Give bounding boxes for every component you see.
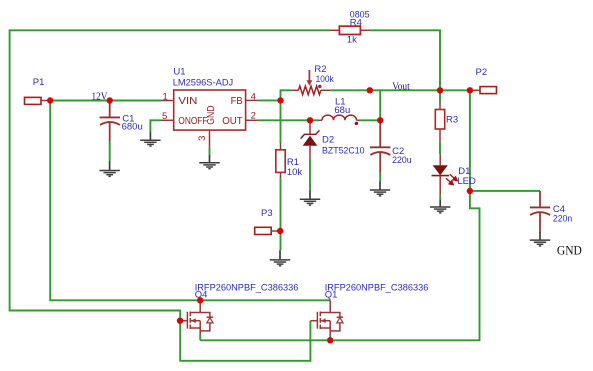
connector P1: [25, 77, 51, 104]
U1 pin 2 OUT: [222, 111, 257, 128]
svg-text:P1: P1: [33, 77, 45, 88]
svg-text:Vout: Vout: [392, 82, 410, 93]
svg-text:GND: GND: [557, 243, 582, 258]
svg-text:5: 5: [162, 111, 167, 122]
svg-text:100k: 100k: [316, 74, 334, 85]
junction R3/R4: [437, 87, 443, 93]
svg-text:1k: 1k: [347, 34, 357, 45]
junction P2: [467, 87, 473, 93]
svg-text:IRFP260NPBF_C386336: IRFP260NPBF_C386336: [195, 283, 299, 294]
ground under C1: [99, 161, 119, 176]
wire P2 column down to LED node: [469, 90, 471, 191]
wire P1 down to MOSFET drains: [50, 101, 330, 301]
junction LED/C4: [467, 188, 473, 194]
U1 pin 4 FB: [231, 92, 258, 108]
diode D1 LED: [432, 154, 477, 200]
svg-text:R4: R4: [350, 17, 362, 28]
junction Q1 source: [327, 337, 333, 343]
diode D2 zener BZT52C10: [301, 120, 365, 190]
ground under C2: [370, 182, 390, 196]
svg-text:BZT52C10: BZT52C10: [322, 145, 365, 156]
wire net gates: top bus to R4, left side, bottom, to Q4/Q1 gates: [10, 30, 330, 361]
wire tee to L1/C2 node: [379, 90, 381, 120]
junction Q4 gate: [177, 318, 183, 324]
svg-text:R3: R3: [446, 114, 458, 125]
U1 pin 1 VIN: [161, 92, 197, 108]
svg-text:3: 3: [197, 136, 208, 141]
ground under P3: [270, 250, 290, 266]
wire ONOFF to ground: [150, 120, 161, 132]
svg-text:4: 4: [251, 92, 256, 103]
ground for ONOFF: [140, 132, 160, 146]
svg-text:IRFP260NPBF_C386336: IRFP260NPBF_C386336: [325, 283, 429, 294]
svg-text:ONOFF: ONOFF: [178, 115, 207, 127]
resistor R4: [330, 9, 370, 45]
capacitor C4: [530, 191, 572, 232]
svg-text:2: 2: [251, 111, 256, 122]
svg-text:FB: FB: [231, 95, 243, 107]
junction C1/12V: [107, 97, 113, 103]
svg-text:P3: P3: [261, 208, 273, 219]
wire LED node down to MOSFET sources: [200, 191, 479, 340]
junction OUT/D2/L1: [307, 117, 313, 123]
svg-text:GND: GND: [205, 105, 217, 125]
svg-text:68u: 68u: [334, 105, 350, 116]
svg-text:OUT: OUT: [222, 115, 243, 127]
svg-text:VIN: VIN: [178, 95, 197, 107]
junction L1/C2: [377, 117, 383, 123]
junction R2 right: [367, 87, 373, 93]
wire Vout bus left + FB branch: [258, 90, 292, 143]
resistor R2 (trimmer): [292, 64, 334, 95]
svg-text:10k: 10k: [287, 167, 303, 178]
junction FB: [277, 97, 283, 103]
junction P1: [47, 97, 53, 103]
wire Vout bus right: [330, 89, 470, 91]
ground under U1 pin 3: [199, 155, 219, 169]
ground under D2: [300, 191, 320, 206]
transistor Q4 IRFP260NPBF_C386336: [180, 283, 298, 341]
resistor R1: [276, 143, 303, 250]
svg-text:LED: LED: [457, 176, 476, 187]
wire R4 right to Vout bus: [370, 30, 441, 90]
svg-text:U1: U1: [173, 67, 185, 78]
connector P3: [255, 208, 280, 235]
wire 12V bus P1 to VIN: [50, 100, 161, 102]
capacitor C1: [100, 101, 143, 162]
svg-text:D2: D2: [322, 135, 334, 146]
junction Q4 drain: [197, 297, 203, 303]
wire LED node to C4: [470, 190, 540, 192]
U1 pin 5 ONOFF: [161, 111, 207, 127]
svg-text:P2: P2: [476, 67, 488, 78]
svg-text:1: 1: [163, 92, 168, 103]
capacitor C2: [370, 120, 412, 181]
svg-text:220n: 220n: [553, 214, 572, 225]
transistor Q1 IRFP260NPBF_C386336: [310, 283, 428, 341]
wire OUT node to L1/D2: [258, 119, 381, 121]
junction P3: [277, 228, 283, 234]
connector P2: [470, 67, 497, 94]
svg-text:220u: 220u: [392, 155, 412, 166]
resistor R3: [435, 90, 458, 154]
svg-text:LM2596S-ADJ: LM2596S-ADJ: [173, 78, 234, 89]
svg-text:Q1: Q1: [325, 289, 338, 300]
svg-text:680u: 680u: [122, 121, 143, 132]
op-amp U1 LM2596S-ADJ box: [173, 67, 246, 131]
ground under C4: [530, 232, 550, 247]
svg-text:12V: 12V: [92, 91, 108, 102]
inductor L1: [319, 97, 360, 126]
U1 pin 3 stub: [197, 130, 210, 155]
ground under D1: [430, 200, 450, 213]
